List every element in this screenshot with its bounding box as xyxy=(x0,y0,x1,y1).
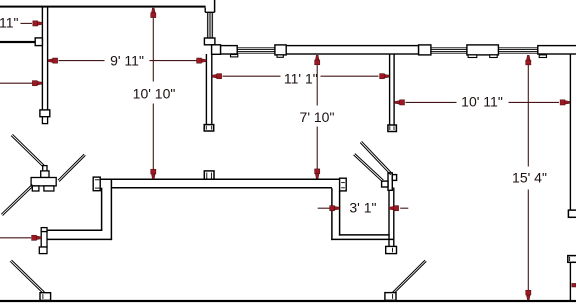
door leaf diagonal upper-left xyxy=(11,136,43,167)
door jamb pieces right of 3'1" opening xyxy=(388,173,392,190)
arrow 15'4" top (points up) xyxy=(526,55,531,65)
arrow 10'10" bottom (points down) xyxy=(151,169,156,179)
window W0: vertical window at top-left corner (4 panes) xyxy=(206,12,208,38)
T-junction wall assembly (left middle) xyxy=(43,166,47,173)
door frame hat on corridor wall (x 204-214) xyxy=(204,171,214,179)
svg-text:9' 11": 9' 11" xyxy=(110,53,144,69)
door cap at bottom of wall x389 xyxy=(388,125,397,132)
door jamb at corridor-left (x 93-100) C shape xyxy=(93,177,100,191)
wall: top band segment C (x 538-576) xyxy=(538,46,576,54)
arrow 3'1" left (points right) xyxy=(330,206,340,211)
arrow 7'10" top (points up) xyxy=(315,55,320,65)
notch under segment A xyxy=(231,55,238,57)
window W2 (x 431-467) xyxy=(431,47,467,49)
svg-text:15' 4": 15' 4" xyxy=(512,170,547,186)
wall: vertical below band (x 389-394) xyxy=(389,54,391,125)
arrow 10'10" top (points up) xyxy=(151,8,156,18)
dimension texts xyxy=(0,15,547,216)
interior room right wall (x 332/340) xyxy=(331,188,333,240)
door cap at bottom of wall x206 xyxy=(204,125,214,131)
interior corridor lower-right horizontals xyxy=(339,234,390,236)
arrow 9'11" right (points right) xyxy=(197,58,207,63)
svg-text:11": 11" xyxy=(0,15,19,31)
wall: left vertical (x 42-48) xyxy=(41,7,43,111)
wall: corner post of top band xyxy=(212,45,221,55)
wall cap C2 (x 419-431) xyxy=(419,45,431,55)
wall: right vertical upper (x 570) xyxy=(569,54,571,210)
arrow 11'1" right (points right) xyxy=(380,74,390,79)
interior wall west faces going south xyxy=(101,188,103,231)
arrow 15'4" bottom (points down) xyxy=(526,290,531,300)
door cap right wall lower xyxy=(568,256,576,263)
arrow 11" (points right) xyxy=(33,21,43,26)
door jamb at corridor east end (x 339-346) xyxy=(340,178,347,191)
door cap on left vertical wall xyxy=(40,110,50,117)
arrow 9'11" left (points left) xyxy=(48,58,58,63)
window W3 (x 498-538) xyxy=(498,47,537,49)
svg-text:10' 11": 10' 11" xyxy=(461,93,503,109)
dimension 10'11" line xyxy=(406,101,457,103)
svg-text:10' 10": 10' 10" xyxy=(133,86,176,102)
wall: left edge stub (y 41-43) xyxy=(0,41,35,43)
svg-text:7' 10": 7' 10" xyxy=(300,109,335,125)
door jamb bottom-left on bottom wall xyxy=(40,293,51,301)
arrow fragment right edge y285 xyxy=(572,283,576,287)
interior corridor lower horizontals xyxy=(47,229,103,231)
wall: top-left exterior horizontal xyxy=(0,6,206,8)
door cap right wall upper xyxy=(568,210,576,217)
window W0 bottom cap xyxy=(204,38,215,45)
wall: top band segment B (x 286-419) xyxy=(286,46,418,54)
arrow corridor y238 (points right) xyxy=(32,235,42,240)
window W1 (x 237-275, 4 glass lines) xyxy=(237,47,275,49)
svg-text:11' 1": 11' 1" xyxy=(284,70,318,86)
svg-text:3' 1": 3' 1" xyxy=(349,199,376,215)
dimension left y83 line xyxy=(0,82,33,84)
dimension 11" line (top-left) xyxy=(21,22,33,24)
arrow 7'10" bottom (points down) xyxy=(315,169,320,179)
door jamb assembly at corridor west end xyxy=(41,228,47,232)
interior corridor wall top face L1 xyxy=(100,178,339,180)
door leaf bottom-right door xyxy=(392,260,425,293)
double door leaves (diagonals near 3'1" opening) xyxy=(360,143,391,175)
door leaf diagonal lower-left of junction xyxy=(1,184,32,214)
notch under cap C1 xyxy=(277,55,283,57)
wall: top band segment A (x 212-237) xyxy=(221,46,238,54)
wall: bottom exterior xyxy=(0,300,576,302)
wall: building corner edge above window xyxy=(214,0,216,12)
door jamb bottom-right on bottom wall xyxy=(385,293,396,301)
dimension 9'11" line xyxy=(59,60,105,62)
arrow 10'11" right (points right) xyxy=(560,100,570,105)
wall: right vertical lower xyxy=(569,262,571,300)
door jamb south end of wall pair xyxy=(386,246,397,253)
door stub below cap xyxy=(42,117,47,124)
door jamb on left edge stub xyxy=(35,38,42,46)
interior wall pair going south (x 389/394) xyxy=(388,188,390,247)
notch under segment C xyxy=(539,55,546,58)
arrow left wall y83 (points right) xyxy=(32,81,42,86)
arrow 3'1" right (points left) xyxy=(389,206,399,211)
dimension 10'10" line xyxy=(152,18,154,82)
interior corridor wall bottom face L2 xyxy=(111,187,332,189)
dimension 7'10" line xyxy=(316,65,318,106)
dimension 11'1" line xyxy=(223,75,281,77)
dimension 15'4" line xyxy=(527,65,529,167)
wall cap C1 (x 275-286) xyxy=(275,45,286,55)
door leaf southwest (bottom-left door) xyxy=(10,261,43,293)
wall cap C3 (x 467-498, wide with two notches) xyxy=(467,45,499,55)
arrow 10'11" left (points left) xyxy=(395,100,405,105)
door leaf diagonal upper-right of junction xyxy=(58,154,84,180)
dimension 3'1" line tails xyxy=(318,207,330,209)
dimension corridor y238 line xyxy=(0,237,31,239)
arrow 11'1" left (points left) xyxy=(212,74,222,79)
wall: vertical below band (x 206-212) xyxy=(205,54,207,125)
